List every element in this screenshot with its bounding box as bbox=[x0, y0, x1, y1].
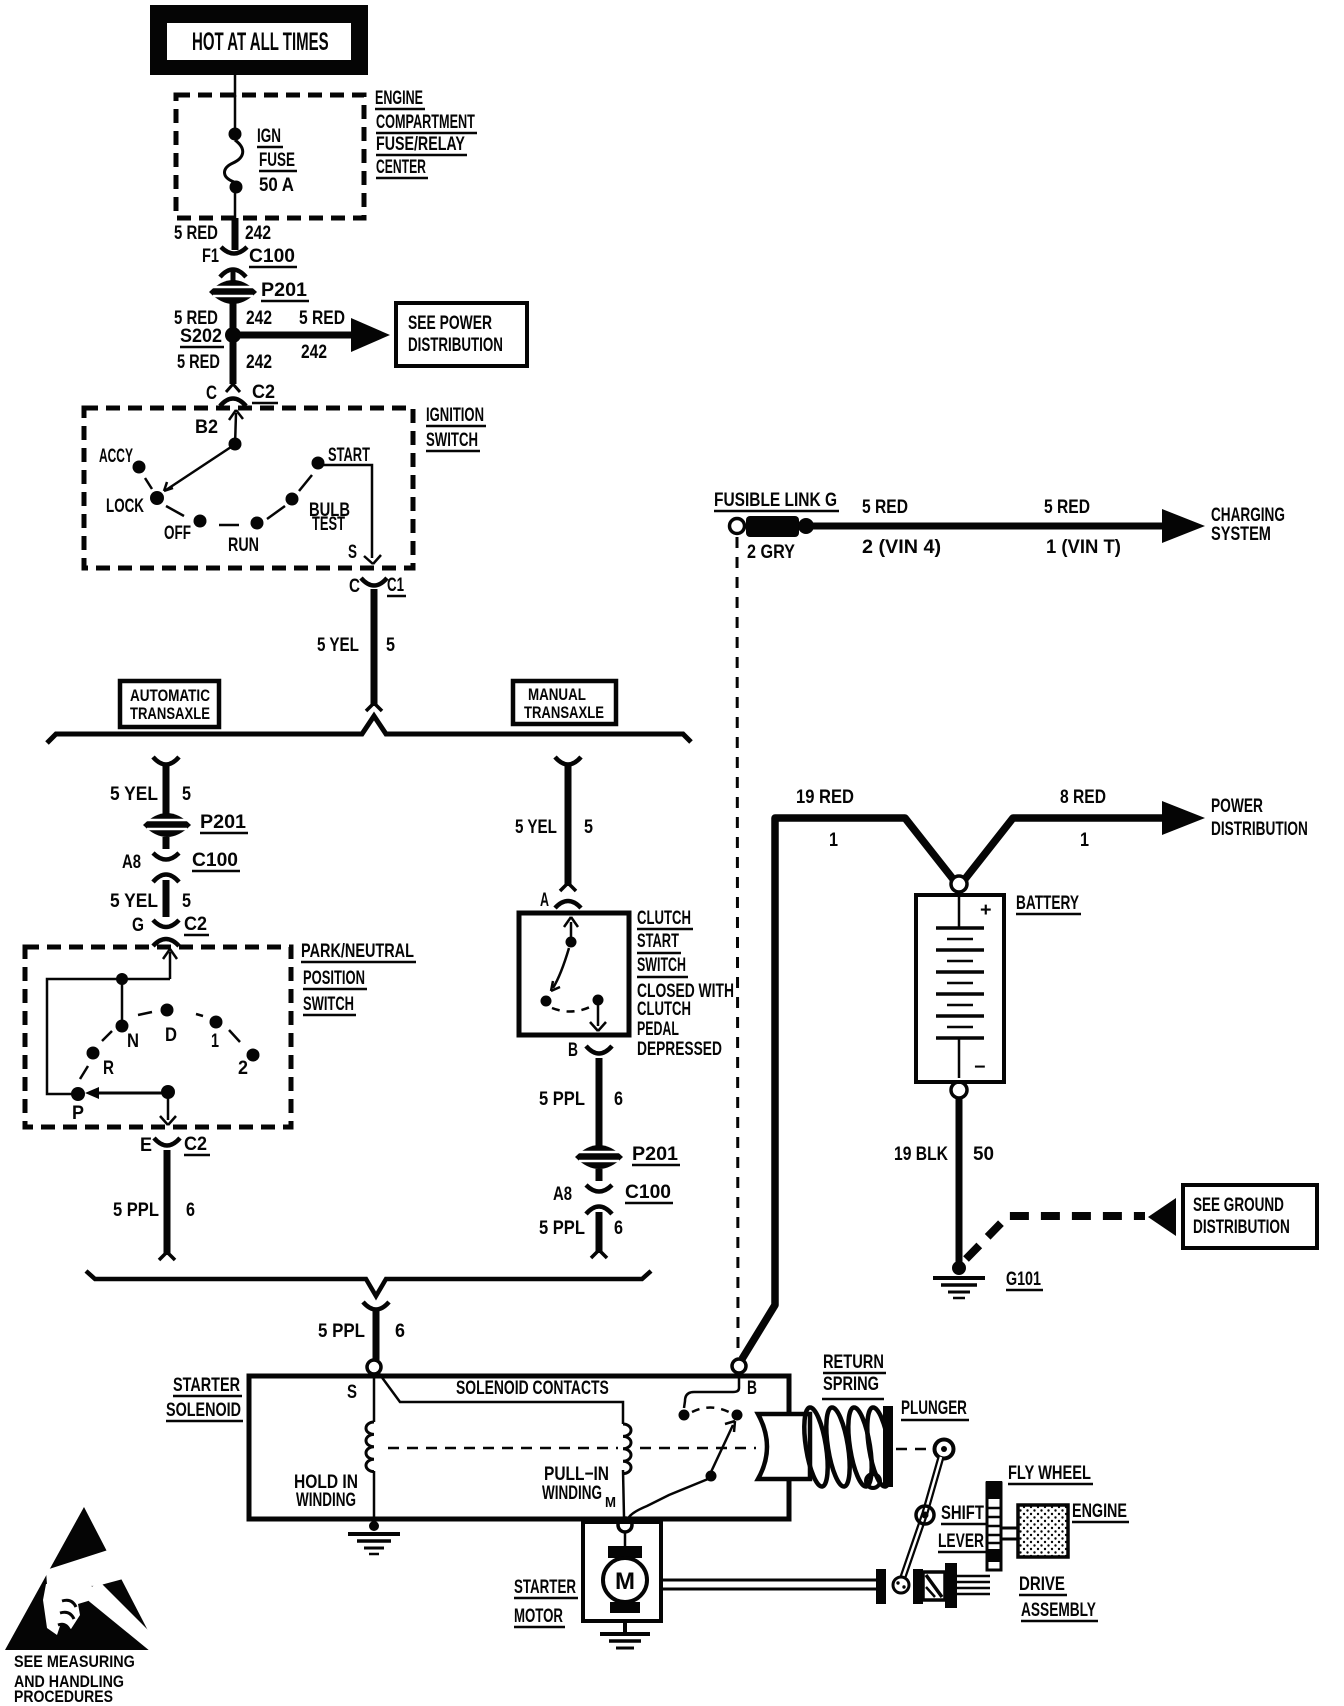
svg-text:B2: B2 bbox=[195, 416, 218, 438]
svg-text:C1: C1 bbox=[387, 575, 404, 596]
node SEE POWER DISTRIBUTION box bbox=[396, 303, 527, 366]
svg-text:242: 242 bbox=[246, 307, 272, 329]
svg-text:DEPRESSED: DEPRESSED bbox=[637, 1038, 722, 1060]
svg-text:ACCY: ACCY bbox=[99, 446, 133, 466]
contact ACCY bbox=[133, 461, 146, 474]
svg-text:S: S bbox=[348, 542, 357, 563]
svg-text:5: 5 bbox=[584, 816, 593, 838]
connector pin A at clutch start switch bbox=[540, 889, 581, 910]
grommet P201 (manual branch) bbox=[575, 1143, 680, 1169]
ESD warning symbol bbox=[5, 1507, 163, 1656]
svg-text:5 YEL: 5 YEL bbox=[110, 890, 158, 911]
starter motor M bbox=[603, 1532, 647, 1613]
contact BULB TEST bbox=[286, 493, 299, 506]
return spring coils bbox=[800, 1406, 895, 1488]
svg-text:5 YEL: 5 YEL bbox=[515, 815, 557, 837]
svg-text:CLUTCH: CLUTCH bbox=[637, 999, 691, 1020]
svg-text:S: S bbox=[347, 1381, 357, 1402]
svg-text:+: + bbox=[980, 899, 992, 921]
connector C100 pin A8 (automatic branch) bbox=[122, 837, 240, 882]
wire 5 RED 242 above splice bbox=[230, 303, 237, 330]
engine block bbox=[1001, 1500, 1129, 1557]
wire 5 YEL 5 (automatic branch lower) bbox=[163, 880, 170, 917]
svg-text:MANUAL: MANUAL bbox=[528, 686, 586, 705]
svg-text:242: 242 bbox=[301, 341, 327, 363]
svg-text:D: D bbox=[165, 1024, 177, 1045]
wire 5 PPL 6 to starter solenoid bbox=[318, 1302, 405, 1360]
svg-text:1: 1 bbox=[1080, 829, 1089, 851]
svg-text:PULL−IN: PULL−IN bbox=[544, 1462, 609, 1484]
svg-text:G101: G101 bbox=[1006, 1268, 1041, 1289]
wire B to contact bbox=[684, 1374, 739, 1408]
gear arc dashes bbox=[80, 1012, 240, 1079]
svg-text:P201: P201 bbox=[632, 1143, 678, 1165]
svg-text:1 (VIN T): 1 (VIN T) bbox=[1046, 536, 1121, 557]
svg-text:POWER: POWER bbox=[1211, 795, 1263, 817]
fly wheel bbox=[986, 1462, 1093, 1570]
svg-text:DISTRIBUTION: DISTRIBUTION bbox=[408, 335, 503, 356]
svg-text:5: 5 bbox=[182, 783, 191, 805]
svg-text:SYSTEM: SYSTEM bbox=[1211, 523, 1271, 544]
grommet P201 bbox=[209, 271, 309, 304]
svg-text:RETURN: RETURN bbox=[823, 1351, 884, 1372]
wire left loop to P bbox=[47, 979, 122, 1094]
connector C2 pin C at ignition switch bbox=[206, 381, 278, 406]
svg-text:19 RED: 19 RED bbox=[796, 786, 854, 807]
connector C1 pin C below ignition switch bbox=[349, 574, 406, 596]
svg-text:P201: P201 bbox=[261, 279, 307, 301]
wire 19 BLK 50 battery to ground bbox=[894, 1098, 994, 1262]
svg-text:C: C bbox=[349, 574, 360, 596]
svg-text:TEST: TEST bbox=[312, 514, 345, 535]
fusible link G bbox=[714, 488, 839, 562]
svg-text:OFF: OFF bbox=[164, 523, 191, 544]
svg-text:C2: C2 bbox=[252, 381, 275, 403]
svg-text:WINDING: WINDING bbox=[542, 1483, 602, 1504]
svg-text:242: 242 bbox=[245, 222, 271, 244]
svg-text:STARTER: STARTER bbox=[173, 1374, 240, 1395]
starter motor box bbox=[583, 1522, 661, 1621]
svg-text:F1: F1 bbox=[202, 245, 219, 266]
svg-text:STARTER: STARTER bbox=[514, 1577, 576, 1598]
contact P bbox=[71, 1087, 85, 1101]
motor ground bbox=[600, 1621, 650, 1648]
svg-text:SPRING: SPRING bbox=[823, 1373, 879, 1394]
solenoid ground bbox=[348, 1519, 400, 1554]
svg-text:5 PPL: 5 PPL bbox=[318, 1320, 365, 1341]
svg-text:C100: C100 bbox=[192, 850, 238, 871]
wire bus merge (bottom) bbox=[86, 1271, 651, 1296]
contact START bbox=[312, 457, 325, 470]
svg-text:IGN: IGN bbox=[257, 126, 281, 147]
wire S to pull-in winding bbox=[378, 1372, 623, 1424]
node HOT AT ALL TIMES power box bbox=[150, 5, 368, 75]
contact 2 bbox=[247, 1049, 260, 1062]
svg-text:C2: C2 bbox=[184, 1133, 207, 1155]
svg-text:5: 5 bbox=[386, 634, 395, 656]
svg-text:G: G bbox=[132, 913, 144, 935]
wire 5 PPL 6 automatic to bus bbox=[113, 1150, 195, 1260]
svg-text:2 (VIN 4): 2 (VIN 4) bbox=[862, 536, 941, 558]
svg-text:5: 5 bbox=[182, 890, 191, 912]
svg-text:START: START bbox=[637, 931, 679, 952]
svg-text:M: M bbox=[605, 1493, 616, 1510]
svg-text:5 RED: 5 RED bbox=[862, 496, 908, 518]
contact OFF bbox=[194, 515, 207, 528]
svg-text:5 YEL: 5 YEL bbox=[317, 633, 359, 655]
svg-text:CENTER: CENTER bbox=[376, 158, 426, 178]
plunger link bbox=[896, 1398, 969, 1459]
svg-text:LEVER: LEVER bbox=[938, 1530, 984, 1552]
svg-text:CLUTCH: CLUTCH bbox=[637, 908, 691, 929]
hold-in winding bbox=[294, 1374, 374, 1518]
pull-in winding bbox=[542, 1424, 631, 1517]
svg-text:SWITCH: SWITCH bbox=[303, 994, 354, 1015]
svg-text:HOT AT ALL TIMES: HOT AT ALL TIMES bbox=[192, 28, 329, 56]
svg-text:5 PPL: 5 PPL bbox=[539, 1217, 585, 1238]
svg-text:DISTRIBUTION: DISTRIBUTION bbox=[1211, 818, 1308, 840]
wire junction to N bbox=[121, 979, 124, 1022]
svg-text:8 RED: 8 RED bbox=[1060, 786, 1106, 808]
svg-text:SEE GROUND: SEE GROUND bbox=[1193, 1195, 1284, 1216]
svg-text:PROCEDURES: PROCEDURES bbox=[14, 1688, 113, 1706]
fuse F1 IGN FUSE 50A bbox=[225, 95, 298, 218]
svg-text:SEE MEASURING: SEE MEASURING bbox=[14, 1653, 135, 1671]
svg-text:2: 2 bbox=[238, 1057, 248, 1079]
svg-text:SWITCH: SWITCH bbox=[426, 430, 478, 451]
svg-text:ENGINE: ENGINE bbox=[375, 87, 423, 108]
wire 5 YEL 5 from ignition to bus bbox=[371, 589, 378, 706]
svg-text:FLY WHEEL: FLY WHEEL bbox=[1008, 1462, 1091, 1483]
svg-text:6: 6 bbox=[395, 1320, 405, 1342]
moving contact arm with arrow bbox=[628, 1421, 735, 1519]
svg-text:5 YEL: 5 YEL bbox=[110, 783, 158, 804]
wire 5 PPL 6 manual upper bbox=[596, 1058, 603, 1147]
wire 5 RED 242 below fuse box bbox=[232, 218, 239, 250]
svg-text:M: M bbox=[615, 1568, 635, 1595]
svg-text:19 BLK: 19 BLK bbox=[894, 1143, 948, 1165]
mechanical link (dashed) bbox=[388, 1447, 618, 1450]
svg-text:2 GRY: 2 GRY bbox=[747, 541, 795, 563]
clutch switch contact dashes bbox=[552, 1006, 592, 1012]
wire manual branch from bus bbox=[515, 757, 593, 891]
wire fusible link sense (dashed) to solenoid B bbox=[737, 537, 738, 1357]
svg-text:AUTOMATIC: AUTOMATIC bbox=[130, 687, 210, 706]
ground G101 bbox=[933, 1261, 1043, 1298]
contact N bbox=[116, 1020, 129, 1033]
node MANUAL TRANSAXLE tag box bbox=[513, 681, 616, 724]
svg-text:COMPARTMENT: COMPARTMENT bbox=[376, 112, 475, 133]
connector C100 pin A8 (manual branch) bbox=[553, 1169, 673, 1214]
svg-text:IGNITION: IGNITION bbox=[426, 405, 484, 426]
svg-text:5 RED: 5 RED bbox=[1044, 496, 1090, 518]
svg-text:FUSIBLE LINK G: FUSIBLE LINK G bbox=[714, 488, 837, 510]
svg-text:START: START bbox=[328, 445, 370, 466]
svg-text:SWITCH: SWITCH bbox=[637, 954, 686, 975]
park/neutral exit arrow E bbox=[160, 1096, 176, 1125]
wire dashed link to ground distribution bbox=[966, 1216, 1145, 1259]
wire from HOT box to fuse center bbox=[234, 75, 237, 97]
node B2 entry arrow bbox=[195, 410, 243, 451]
svg-text:6: 6 bbox=[186, 1199, 195, 1221]
contact R bbox=[87, 1047, 100, 1060]
starter solenoid box bbox=[249, 1376, 789, 1519]
svg-text:50: 50 bbox=[973, 1144, 994, 1165]
svg-text:MOTOR: MOTOR bbox=[514, 1606, 563, 1627]
svg-text:50 A: 50 A bbox=[259, 174, 294, 195]
svg-text:SOLENOID: SOLENOID bbox=[166, 1399, 241, 1420]
ignition switch box (dashed) bbox=[84, 408, 413, 568]
svg-text:TRANSAXLE: TRANSAXLE bbox=[524, 703, 604, 722]
svg-text:WINDING: WINDING bbox=[296, 1490, 356, 1511]
svg-text:N: N bbox=[127, 1030, 139, 1051]
ignition rotor arm to LOCK bbox=[164, 447, 231, 491]
clutch start switch box bbox=[519, 913, 629, 1035]
connector C2 pin G at park/neutral switch bbox=[132, 913, 209, 946]
connector C100 pin F1 bbox=[202, 245, 297, 277]
plunger cup bbox=[758, 1414, 810, 1479]
svg-text:DISTRIBUTION: DISTRIBUTION bbox=[1193, 1216, 1290, 1238]
contact gap dashes bbox=[692, 1408, 729, 1413]
svg-text:PARK/NEUTRAL: PARK/NEUTRAL bbox=[301, 940, 414, 961]
svg-text:ASSEMBLY: ASSEMBLY bbox=[1021, 1599, 1096, 1621]
contact LOCK bbox=[150, 491, 164, 505]
terminal S bbox=[367, 1360, 381, 1374]
park/neutral position switch box (dashed) bbox=[25, 947, 291, 1127]
connector pin B below clutch switch bbox=[568, 1039, 612, 1061]
svg-text:1: 1 bbox=[211, 1030, 219, 1051]
engine compartment fuse/relay center box (dashed) bbox=[176, 95, 364, 218]
battery bbox=[916, 876, 1081, 1098]
contact 1 bbox=[210, 1016, 223, 1029]
svg-text:5 RED: 5 RED bbox=[177, 351, 220, 372]
svg-text:242: 242 bbox=[246, 351, 272, 373]
svg-text:A8: A8 bbox=[553, 1183, 572, 1204]
rotor arm to P with arrow bbox=[85, 1085, 175, 1099]
wire to SEE POWER DISTRIBUTION bbox=[240, 332, 352, 339]
svg-text:PLUNGER: PLUNGER bbox=[901, 1398, 967, 1419]
svg-text:6: 6 bbox=[614, 1217, 623, 1239]
svg-text:C: C bbox=[206, 381, 217, 403]
splice S202 bbox=[225, 327, 241, 343]
svg-text:SOLENOID CONTACTS: SOLENOID CONTACTS bbox=[456, 1377, 609, 1399]
svg-text:S202: S202 bbox=[180, 325, 222, 347]
contact RUN bbox=[251, 517, 264, 530]
svg-text:5 RED: 5 RED bbox=[299, 307, 345, 329]
connector C2 pin E bbox=[140, 1133, 210, 1156]
svg-text:1: 1 bbox=[829, 829, 838, 851]
detent arc dashes bbox=[145, 475, 312, 525]
svg-text:R: R bbox=[103, 1056, 114, 1078]
clutch switch entry arrow bbox=[564, 917, 578, 948]
svg-text:ENGINE: ENGINE bbox=[1072, 1500, 1127, 1521]
svg-text:POSITION: POSITION bbox=[303, 968, 365, 989]
node SEE GROUND DISTRIBUTION box bbox=[1183, 1185, 1317, 1248]
svg-text:SHIFT: SHIFT bbox=[941, 1502, 984, 1523]
svg-text:6: 6 bbox=[614, 1088, 623, 1110]
clutch switch output contact bbox=[593, 995, 604, 1006]
svg-text:B: B bbox=[568, 1039, 578, 1061]
solenoid contact left bbox=[679, 1410, 690, 1421]
svg-text:LOCK: LOCK bbox=[106, 496, 144, 517]
svg-text:C100: C100 bbox=[249, 246, 295, 267]
wire START to S output bbox=[322, 465, 381, 564]
svg-text:FUSE: FUSE bbox=[259, 150, 295, 171]
svg-text:5 RED: 5 RED bbox=[174, 222, 218, 243]
grommet P201 (automatic branch) bbox=[143, 811, 248, 837]
wire 19 RED battery feed bbox=[742, 786, 953, 1359]
svg-text:P: P bbox=[72, 1102, 84, 1124]
svg-text:TRANSAXLE: TRANSAXLE bbox=[130, 704, 210, 723]
solenoid contact right bbox=[732, 1410, 743, 1421]
svg-text:BATTERY: BATTERY bbox=[1016, 892, 1079, 914]
terminal B bbox=[732, 1359, 746, 1373]
svg-text:C2: C2 bbox=[184, 913, 207, 935]
clutch switch arm bbox=[541, 948, 570, 1007]
svg-text:P201: P201 bbox=[200, 811, 246, 833]
svg-text:E: E bbox=[140, 1134, 152, 1156]
wire 5 RED 242 below splice bbox=[230, 341, 237, 384]
svg-text:A8: A8 bbox=[122, 851, 141, 872]
svg-text:FUSE/RELAY: FUSE/RELAY bbox=[376, 133, 465, 154]
wire 5 PPL 6 manual lower bbox=[539, 1212, 623, 1258]
wire automatic branch upper bbox=[110, 757, 191, 814]
contact D bbox=[161, 1004, 174, 1017]
ESD caption bbox=[14, 1653, 135, 1706]
svg-text:SEE POWER: SEE POWER bbox=[408, 312, 492, 334]
svg-text:RUN: RUN bbox=[228, 534, 259, 555]
svg-text:PEDAL: PEDAL bbox=[637, 1018, 679, 1039]
wire 8 RED to power distribution bbox=[965, 786, 1308, 879]
svg-text:A: A bbox=[540, 889, 549, 910]
shift lever rod bbox=[903, 1457, 986, 1577]
wire 5 RED to charging system bbox=[813, 496, 1285, 558]
svg-text:−: − bbox=[974, 1056, 986, 1078]
wire bus split (top) bbox=[47, 716, 691, 743]
drive shaft bbox=[661, 1563, 1098, 1621]
terminal M bbox=[618, 1518, 632, 1532]
svg-text:5 PPL: 5 PPL bbox=[113, 1199, 159, 1220]
junction node bbox=[116, 973, 128, 985]
park/neutral entry arrow bbox=[122, 949, 177, 979]
node AUTOMATIC TRANSAXLE tag box bbox=[120, 681, 219, 727]
svg-text:DRIVE: DRIVE bbox=[1019, 1572, 1065, 1594]
svg-text:B: B bbox=[747, 1377, 757, 1399]
svg-text:5 PPL: 5 PPL bbox=[539, 1088, 585, 1109]
svg-text:C100: C100 bbox=[625, 1182, 671, 1203]
